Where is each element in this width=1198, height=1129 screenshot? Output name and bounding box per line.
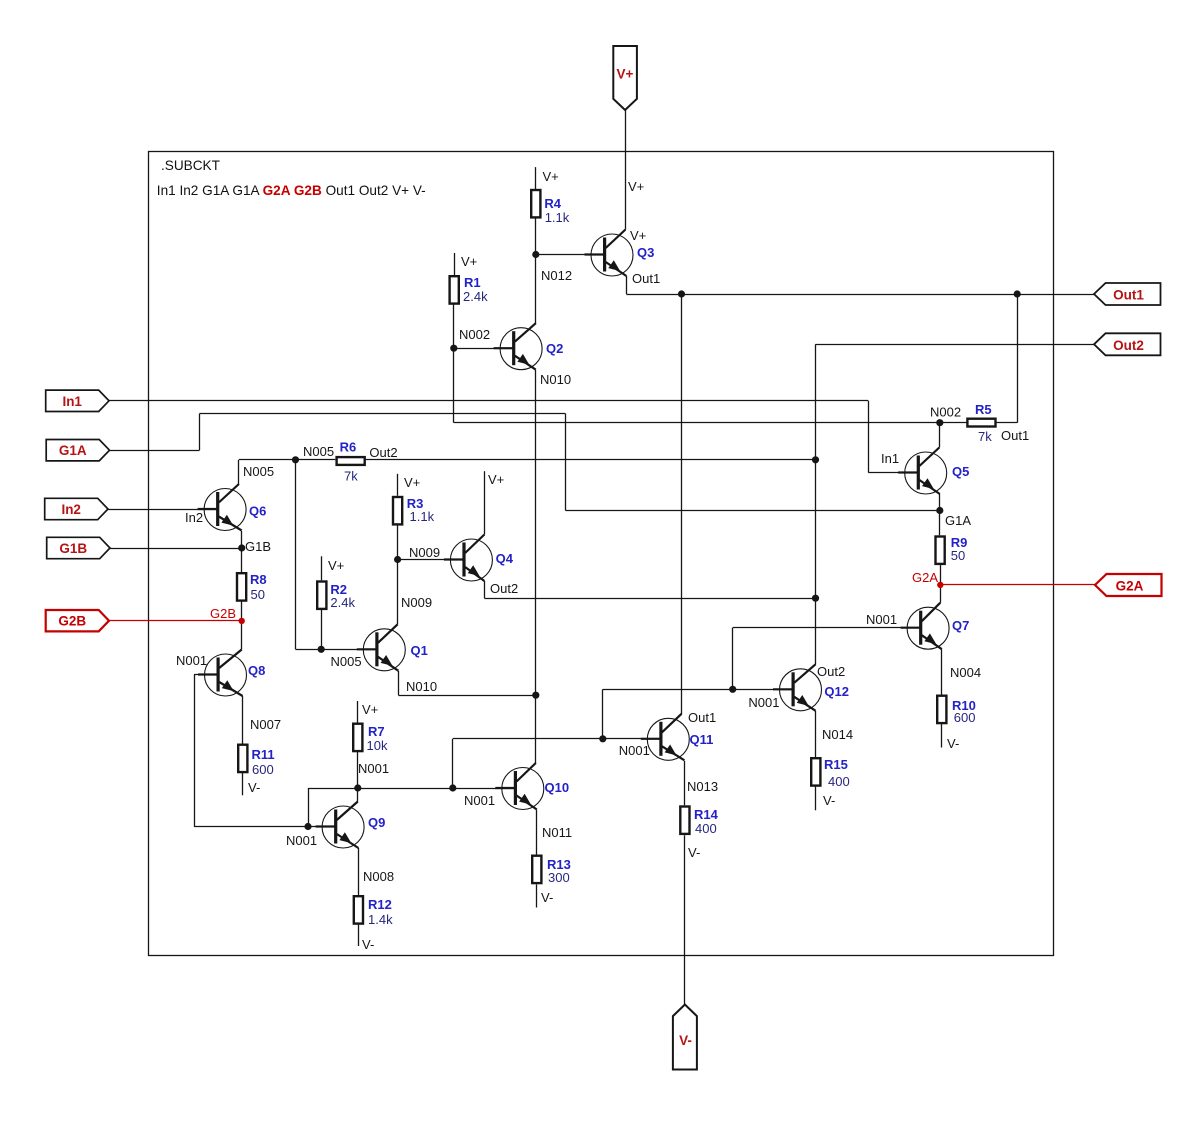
wire R10 bottom V-	[941, 724, 943, 748]
svg-text:R5: R5	[975, 402, 992, 417]
wire R12 bottom V-	[358, 924, 360, 946]
junction	[1014, 290, 1021, 297]
wire Q2 emitter to N010 node	[535, 370, 537, 695]
wire N010 to Q10 collector	[535, 695, 537, 763]
transistor Q2	[494, 323, 542, 370]
wire N001 rail horizontal	[308, 788, 515, 790]
junction G2A (red)	[937, 582, 943, 588]
junction	[318, 646, 325, 653]
power flag V-	[673, 1005, 697, 1070]
transistor Q12	[773, 664, 822, 711]
wire R4 bottom to N012 node	[535, 218, 537, 254]
svg-text:N005: N005	[303, 444, 334, 459]
junction G2B (red)	[239, 618, 245, 624]
wire Q5 collector to N002	[939, 423, 941, 448]
svg-text:In1 In2 G1A G1A G2A G2B Out1 O: In1 In2 G1A G1A G2A G2B Out1 Out2 V+ V-	[157, 183, 426, 198]
svg-text:V-: V-	[362, 937, 374, 952]
wire Out1 vertical to Q11 collector	[681, 294, 683, 714]
svg-text:N005: N005	[331, 654, 362, 669]
wire R13 bottom V-	[536, 884, 538, 907]
svg-text:R12: R12	[368, 897, 392, 912]
wire R2 top V+	[321, 556, 323, 580]
svg-text:Out2: Out2	[369, 445, 397, 460]
transistor Q6	[198, 484, 247, 531]
svg-text:R15: R15	[824, 757, 848, 772]
port flag Out2	[1094, 333, 1161, 355]
wire R1 bottom to N002	[453, 304, 455, 348]
svg-text:50: 50	[251, 587, 265, 602]
svg-text:G1B: G1B	[59, 541, 87, 556]
wire Q4 emitter to Out2 vertical	[484, 581, 486, 598]
svg-text:G1B: G1B	[245, 539, 271, 554]
svg-text:600: 600	[954, 710, 976, 725]
svg-text:1.1k: 1.1k	[410, 509, 435, 524]
svg-text:N013: N013	[687, 779, 718, 794]
wire R3 bottom to N009	[397, 525, 399, 560]
svg-text:R4: R4	[544, 196, 561, 211]
wire N001 rail: R7 bottom	[357, 752, 359, 788]
junction	[304, 823, 311, 830]
transistor Q4	[444, 535, 493, 582]
svg-text:N010: N010	[540, 372, 571, 387]
svg-text:Q7: Q7	[952, 618, 969, 633]
svg-text:Out2: Out2	[490, 581, 518, 596]
wire N001 to Q8/Q9 branch	[308, 788, 310, 827]
resistor R8	[237, 573, 246, 600]
resistor R11	[238, 745, 247, 772]
wire Out2 flag to Q12 collector	[816, 344, 1095, 346]
svg-text:In1: In1	[62, 394, 82, 409]
svg-text:Q5: Q5	[952, 464, 969, 479]
port flag In1	[46, 390, 109, 411]
svg-text:50: 50	[951, 548, 965, 563]
svg-text:Q2: Q2	[546, 341, 563, 356]
svg-text:N005: N005	[243, 464, 274, 479]
svg-text:Q11: Q11	[690, 732, 714, 747]
svg-text:G1A: G1A	[945, 513, 971, 528]
wire N001 to Q12 base	[733, 689, 793, 691]
wire G1A node to R9 top	[939, 511, 941, 536]
svg-text:V-: V-	[823, 793, 835, 808]
svg-text:.SUBCKT: .SUBCKT	[161, 158, 220, 173]
port flag In2	[45, 498, 108, 519]
svg-text:N004: N004	[950, 665, 981, 680]
wire Q2 collector to N012	[535, 255, 537, 324]
svg-text:R11: R11	[252, 747, 275, 762]
transistor Q3	[585, 230, 634, 277]
power flag V+	[613, 46, 637, 110]
svg-text:V-: V-	[541, 890, 553, 905]
port flag G2A	[1095, 574, 1162, 596]
wire Q6 emitter to G1B node to R8 top	[241, 531, 243, 572]
svg-text:N001: N001	[748, 695, 779, 710]
svg-text:N008: N008	[363, 869, 394, 884]
svg-text:N014: N014	[822, 727, 853, 742]
junction	[394, 556, 401, 563]
junction	[936, 507, 943, 514]
svg-text:600: 600	[252, 762, 274, 777]
wire N005 vertical to Q1 base	[295, 460, 297, 650]
wire Q7 emitter to R10	[941, 649, 943, 694]
junction	[238, 544, 245, 551]
svg-text:Out1: Out1	[1113, 288, 1144, 303]
transistor Q8	[198, 650, 247, 697]
wire Q9 collector to N001	[357, 788, 359, 802]
svg-text:G1A: G1A	[59, 443, 87, 458]
junction	[678, 290, 685, 297]
svg-text:1.4k: 1.4k	[368, 912, 393, 927]
svg-text:Out1: Out1	[632, 271, 660, 286]
svg-text:In2: In2	[185, 510, 203, 525]
resistor R13	[532, 856, 541, 883]
resistor R10	[937, 696, 946, 723]
svg-text:N001: N001	[619, 743, 650, 758]
transistor Q7	[901, 603, 950, 650]
transistor Q5	[898, 448, 947, 495]
wire Q1 emitter to N010 node	[398, 671, 400, 695]
resistor R5	[967, 419, 995, 427]
svg-text:N002: N002	[459, 327, 490, 342]
svg-text:Q12: Q12	[824, 684, 849, 699]
svg-text:R14: R14	[694, 807, 719, 822]
svg-text:Out1: Out1	[688, 710, 716, 725]
wire R5 right to Out1 vertical	[996, 422, 1017, 424]
wire Q4 collector to V+ label	[484, 471, 486, 534]
svg-text:V+: V+	[543, 169, 559, 184]
wire N005 to R6 left	[296, 459, 336, 461]
wire R9 bottom to G2A node	[940, 562, 942, 585]
wire N001 rail up to Q12 base	[602, 689, 604, 739]
resistor R14	[680, 807, 689, 834]
junction	[450, 345, 457, 352]
svg-text:R8: R8	[250, 572, 267, 587]
wire G2A node to Q7 collector	[940, 585, 942, 603]
svg-text:400: 400	[695, 821, 717, 836]
transistor Q10	[495, 763, 544, 810]
svg-text:G2A: G2A	[912, 570, 938, 585]
svg-text:V+: V+	[404, 475, 420, 490]
svg-text:V+: V+	[630, 228, 646, 243]
junction	[354, 784, 361, 791]
wire G1B net	[110, 548, 242, 550]
junction	[449, 784, 456, 791]
wire R3 top V+	[397, 474, 399, 496]
svg-text:400: 400	[828, 774, 850, 789]
svg-text:Q1: Q1	[411, 643, 428, 658]
junction	[532, 251, 539, 258]
resistor R3	[393, 497, 402, 524]
wire N001 rail up to Q11 base	[452, 739, 454, 788]
junction	[812, 456, 819, 463]
transistor Q9	[316, 802, 365, 849]
svg-text:V+: V+	[617, 67, 634, 82]
svg-text:2.4k: 2.4k	[463, 289, 488, 304]
wire R15 bottom V-	[815, 786, 817, 810]
wire N001 rail up to Q7 base	[732, 628, 734, 690]
svg-text:Q10: Q10	[545, 780, 570, 795]
svg-text:V-: V-	[679, 1033, 692, 1048]
wire Q3 emitter to Out1 rail	[626, 276, 628, 294]
wire G2B net (red)	[109, 620, 242, 622]
resistor R15	[811, 758, 820, 785]
svg-text:R6: R6	[340, 440, 357, 455]
svg-text:V-: V-	[688, 845, 700, 860]
svg-text:N009: N009	[409, 545, 440, 560]
svg-text:N001: N001	[176, 653, 207, 668]
svg-text:Q3: Q3	[637, 245, 654, 260]
port flag G1B	[47, 537, 110, 558]
wire G2A net (red)	[940, 584, 1095, 586]
junction	[812, 595, 819, 602]
transistor Q11	[641, 714, 690, 761]
svg-text:Q9: Q9	[368, 815, 385, 830]
svg-text:Out2: Out2	[1113, 338, 1144, 353]
wire Q8 emitter to R11	[242, 696, 244, 744]
svg-text:300: 300	[548, 870, 570, 885]
junction	[936, 419, 943, 426]
wire Q6 collector to N005	[238, 460, 240, 485]
svg-text:N001: N001	[464, 793, 495, 808]
svg-text:G2B: G2B	[210, 606, 236, 621]
port flag G1A	[46, 440, 109, 461]
resistor R9	[936, 537, 945, 564]
svg-text:V+: V+	[628, 179, 644, 194]
svg-text:V+: V+	[328, 558, 344, 573]
svg-text:V-: V-	[947, 736, 959, 751]
wire R8 bottom to G2B node to Q8 collector	[241, 600, 243, 650]
resistor R12	[354, 896, 363, 923]
wire R11 bottom V-	[242, 772, 244, 796]
svg-text:7k: 7k	[344, 468, 358, 483]
wire N009 to Q1 collector	[397, 560, 399, 625]
svg-text:N009: N009	[401, 595, 432, 610]
wire Q5 emitter to G1A node	[939, 494, 941, 511]
resistor R4	[531, 190, 540, 217]
svg-text:N012: N012	[541, 268, 572, 283]
svg-text:7k: 7k	[978, 429, 992, 444]
svg-text:Q6: Q6	[249, 503, 266, 518]
wire N002 to R5 left	[940, 422, 967, 424]
svg-text:N001: N001	[358, 761, 389, 776]
svg-text:V+: V+	[362, 702, 378, 717]
svg-text:Q4: Q4	[496, 551, 514, 566]
wire N012 to Q3 base	[536, 254, 605, 256]
port flag Out1	[1094, 283, 1161, 305]
wire Q11 emitter to R14	[684, 761, 686, 806]
svg-text:2.4k: 2.4k	[330, 595, 355, 610]
svg-text:V+: V+	[488, 472, 504, 487]
wire N002 vertical + horizontal to Q5	[453, 348, 455, 423]
wire R2 bottom to N005	[321, 608, 323, 649]
resistor R7	[353, 724, 362, 751]
wire R1 top V+	[454, 253, 456, 276]
svg-text:R1: R1	[464, 275, 481, 290]
svg-text:G2B: G2B	[58, 614, 86, 629]
wire R6 right to Out2 vertical	[365, 459, 816, 461]
svg-text:N001: N001	[286, 833, 317, 848]
wire V+ flag to Q3 collector	[625, 110, 627, 230]
transistor Q1	[357, 624, 406, 671]
svg-text:R7: R7	[368, 724, 385, 739]
wire Q10 emitter to R13	[536, 810, 538, 855]
svg-text:In2: In2	[61, 502, 81, 517]
wire G1A net	[110, 450, 200, 452]
svg-text:Q8: Q8	[248, 663, 265, 678]
wire Q9 emitter to R12	[358, 848, 360, 895]
svg-text:In1: In1	[881, 451, 899, 466]
resistor R6	[337, 457, 365, 465]
junction	[729, 686, 736, 693]
svg-text:N002: N002	[930, 404, 961, 419]
svg-text:V+: V+	[461, 254, 477, 269]
svg-text:G2A: G2A	[1116, 579, 1144, 594]
resistor R1	[450, 276, 459, 303]
wire N001 to Q11 base	[603, 738, 661, 740]
svg-text:N011: N011	[542, 825, 572, 840]
svg-text:1.1k: 1.1k	[545, 210, 570, 225]
wire Q12 emitter to R15	[815, 711, 817, 757]
resistor R2	[317, 582, 326, 609]
wire R4 top V+	[535, 167, 537, 189]
junction	[532, 692, 539, 699]
wire R7 top V+	[357, 701, 359, 723]
svg-text:10k: 10k	[367, 738, 388, 753]
junction	[599, 735, 606, 742]
wire In1 net	[109, 400, 868, 402]
svg-text:Out1: Out1	[1001, 428, 1029, 443]
port flag G2B	[46, 610, 109, 631]
svg-text:Out2: Out2	[817, 664, 845, 679]
svg-text:V-: V-	[248, 780, 260, 795]
subcircuit boundary box	[149, 152, 1054, 956]
wire In2 net	[108, 509, 218, 511]
svg-text:N007: N007	[250, 717, 281, 732]
svg-text:N001: N001	[866, 612, 897, 627]
wire R14 bottom to V- flag	[684, 835, 686, 1004]
junction	[292, 456, 299, 463]
svg-text:N010: N010	[406, 679, 437, 694]
wire N002 to Q2 base	[454, 348, 514, 350]
wire N009 to Q4 base	[398, 559, 464, 561]
